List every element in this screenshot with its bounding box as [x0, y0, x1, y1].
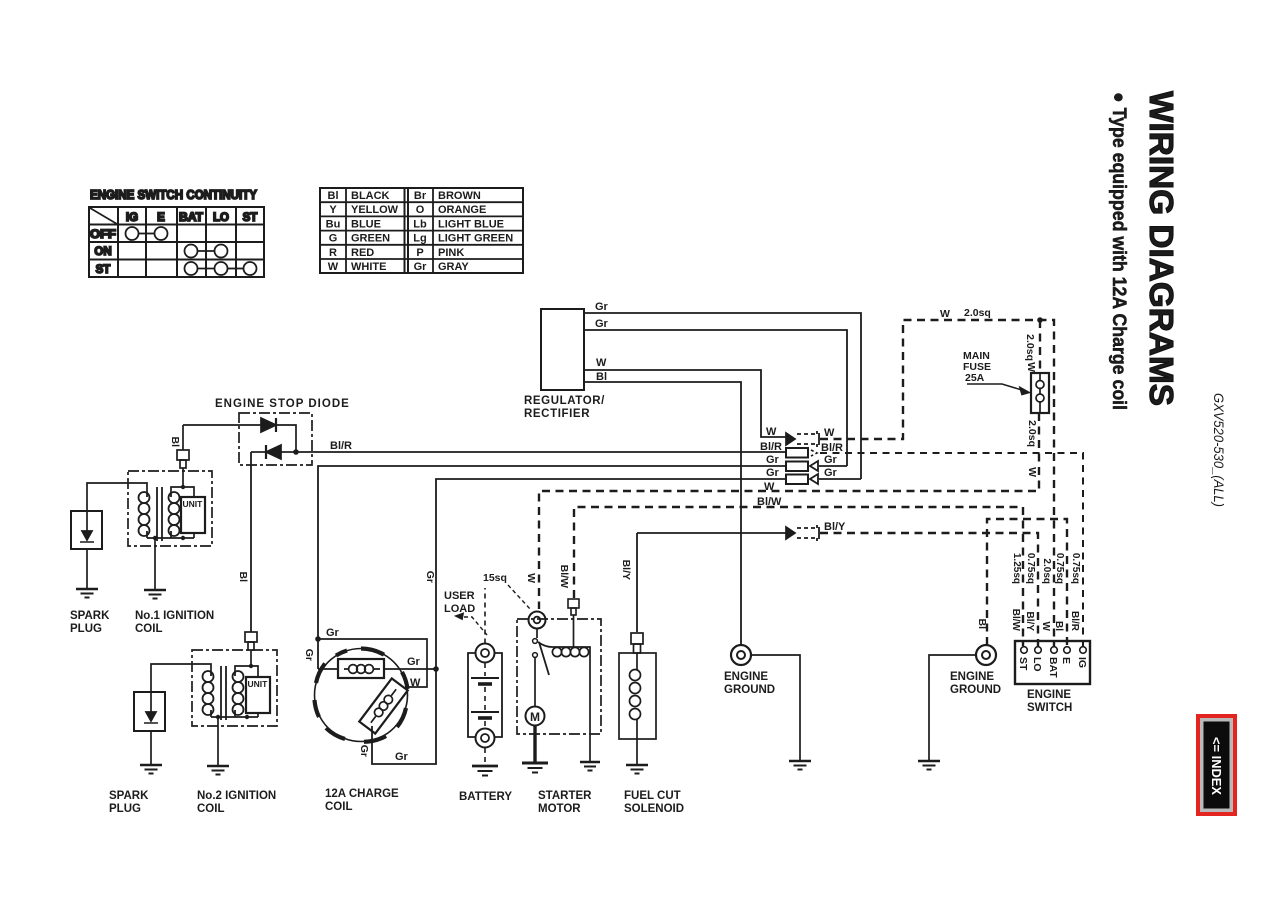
- svg-text:GRAY: GRAY: [438, 261, 469, 273]
- svg-text:R: R: [329, 247, 337, 259]
- svg-text:Bl/R: Bl/R: [760, 441, 782, 453]
- svg-text:Gr: Gr: [303, 649, 315, 661]
- battery: [459, 588, 512, 803]
- svg-text:LO: LO: [213, 212, 229, 224]
- svg-text:Bl/W: Bl/W: [1010, 609, 1021, 632]
- svg-text:Bl: Bl: [237, 572, 249, 583]
- svg-text:W: W: [596, 357, 607, 369]
- engine switch wire gauge labels (rotated): [1011, 553, 1081, 584]
- svg-text:Bl: Bl: [596, 371, 607, 383]
- svg-text:W: W: [410, 677, 421, 689]
- svg-text:Gr: Gr: [595, 318, 609, 330]
- INDEX button: [1196, 714, 1237, 816]
- svg-text:0.75sq: 0.75sq: [1025, 553, 1036, 584]
- ground below No.2 coil: [207, 766, 229, 775]
- svg-text:Bl: Bl: [169, 437, 181, 448]
- svg-text:UNIT: UNIT: [248, 679, 269, 689]
- connector bullet Bl/W at starter: [568, 599, 579, 647]
- svg-text:PINK: PINK: [438, 247, 464, 259]
- wire Bl/W dashed starter to engine switch ST: [574, 507, 1023, 646]
- svg-text:Bl/Y: Bl/Y: [620, 560, 632, 580]
- svg-text:Y: Y: [329, 204, 337, 216]
- svg-text:Gr: Gr: [595, 301, 609, 313]
- svg-text:2.0sq: 2.0sq: [964, 307, 991, 319]
- connector W (triangle + dashed shell): [786, 431, 819, 447]
- svg-text:ST: ST: [1017, 657, 1029, 671]
- svg-text:UNIT: UNIT: [183, 499, 204, 509]
- svg-text:LO: LO: [1031, 657, 1043, 672]
- No.1 ignition coil: [87, 471, 214, 635]
- svg-text:GROUND: GROUND: [724, 684, 775, 696]
- svg-text:Gr: Gr: [424, 571, 436, 583]
- svg-text:W: W: [1040, 622, 1051, 632]
- svg-text:Gr: Gr: [824, 454, 838, 466]
- svg-text:E: E: [1060, 657, 1072, 664]
- svg-text:E: E: [157, 212, 165, 224]
- wire W dashed: connector to top run, to engine switch BAT: [820, 320, 1054, 646]
- ground symbol engine ground 1: [789, 761, 811, 770]
- svg-text:ENGINE: ENGINE: [1027, 689, 1071, 701]
- ground below spark plug No.2: [140, 765, 162, 774]
- svg-text:P: P: [416, 247, 423, 259]
- engine switch continuity table: [89, 188, 264, 277]
- svg-text:W: W: [525, 573, 537, 583]
- No.2 ignition coil: [151, 650, 277, 815]
- svg-text:BROWN: BROWN: [438, 190, 481, 202]
- svg-text:Bl/R: Bl/R: [330, 440, 352, 452]
- engine switch: [1015, 641, 1090, 714]
- svg-text:REGULATOR/: REGULATOR/: [524, 395, 605, 407]
- wire Bl regulator down to engine ground: [584, 382, 741, 645]
- svg-text:No.1 IGNITION: No.1 IGNITION: [135, 610, 214, 622]
- svg-text:0.75sq: 0.75sq: [1054, 553, 1065, 584]
- svg-text:ENGINE SWITCH CONTINUITY: ENGINE SWITCH CONTINUITY: [90, 188, 258, 202]
- svg-text:Gr: Gr: [766, 467, 780, 479]
- svg-text:M: M: [530, 710, 540, 724]
- wire Bl/R to connector: [296, 451, 786, 453]
- svg-text:BLUE: BLUE: [351, 219, 381, 231]
- engine stop diode box: [215, 398, 350, 465]
- page title WIRING DIAGRAMS (rotated): [1143, 91, 1180, 406]
- svg-text:W: W: [940, 308, 950, 320]
- wire W dashed fuse tap down: [1039, 320, 1041, 372]
- svg-text:WIRING DIAGRAMS: WIRING DIAGRAMS: [1143, 91, 1180, 406]
- wire Bl/Y solid fuel cut to connector: [637, 532, 786, 534]
- diode D2 bottom: [251, 445, 296, 459]
- svg-text:ORANGE: ORANGE: [438, 204, 486, 216]
- svg-text:Lb: Lb: [413, 219, 427, 231]
- svg-text:W: W: [1026, 467, 1038, 477]
- svg-text:Bl/Y: Bl/Y: [1024, 612, 1035, 632]
- svg-text:Bl/W: Bl/W: [558, 565, 570, 588]
- svg-text:Bl/Y: Bl/Y: [824, 521, 846, 533]
- svg-text:BAT: BAT: [179, 212, 203, 224]
- wire color code table: [320, 188, 523, 273]
- svg-text:IG: IG: [126, 212, 138, 224]
- svg-text:Lg: Lg: [413, 233, 426, 245]
- regulator/rectifier box: [524, 309, 605, 420]
- svg-text:ON: ON: [94, 246, 111, 258]
- svg-text:COIL: COIL: [135, 623, 162, 635]
- wire W dashed fuse bottom to starter motor: [539, 413, 1039, 609]
- label 15sq with leader: [483, 572, 531, 610]
- svg-text:O: O: [416, 204, 425, 216]
- svg-text:Gr: Gr: [407, 656, 421, 668]
- svg-text:25A: 25A: [965, 372, 985, 384]
- engine ground 2: [929, 645, 1001, 760]
- svg-text:No.2 IGNITION: No.2 IGNITION: [197, 790, 276, 802]
- svg-text:Gr: Gr: [824, 467, 838, 479]
- wire Bl/Y down to fuel cut solenoid: [636, 533, 638, 632]
- ground below spark plug No.1: [76, 589, 98, 598]
- diode D1 top: [183, 418, 296, 450]
- svg-text:BATTERY: BATTERY: [459, 791, 512, 803]
- svg-text:LOAD: LOAD: [444, 603, 475, 615]
- svg-text:ENGINE: ENGINE: [724, 671, 768, 683]
- svg-text:RECTIFIER: RECTIFIER: [524, 408, 590, 420]
- svg-text:SOLENOID: SOLENOID: [624, 803, 684, 815]
- spark plug No.2: [109, 692, 165, 815]
- wire Gr row1 right segment: [819, 465, 847, 467]
- wire Bl dashed engine switch E to engine ground: [987, 519, 1067, 646]
- svg-text:W: W: [1025, 362, 1037, 372]
- ground below starter solenoid: [580, 762, 600, 771]
- wire Gr row2 right segment: [819, 478, 861, 480]
- label 2.0sq W (rotated, fuse bottom): [1026, 420, 1038, 477]
- svg-text:LIGHT BLUE: LIGHT BLUE: [438, 219, 504, 231]
- svg-text:SWITCH: SWITCH: [1027, 702, 1072, 714]
- engine switch wire color labels (rotated): [1010, 609, 1080, 632]
- svg-text:LIGHT GREEN: LIGHT GREEN: [438, 233, 513, 245]
- wire Gr row2 connector to charge coil right: [372, 479, 786, 764]
- svg-text:2.0sq: 2.0sq: [1024, 334, 1036, 361]
- node W top at fuse tap: [1037, 317, 1043, 323]
- ground below No.1 coil: [144, 590, 166, 599]
- starter motor: [517, 612, 601, 816]
- svg-text:Gr: Gr: [395, 751, 409, 763]
- svg-text:SPARK: SPARK: [70, 610, 110, 622]
- svg-text:W: W: [766, 426, 777, 438]
- svg-text:W: W: [824, 427, 835, 439]
- svg-text:Bl/R: Bl/R: [1069, 611, 1080, 632]
- svg-text:2.0sq: 2.0sq: [1041, 558, 1052, 584]
- svg-text:● Type equipped with 12A Charg: ● Type equipped with 12A Charge coil: [1108, 92, 1129, 410]
- svg-text:GXV520-530_(ALL): GXV520-530_(ALL): [1211, 393, 1226, 507]
- svg-text:SPARK: SPARK: [109, 790, 149, 802]
- wire Bl/R dashed connector to engine switch IG: [820, 453, 1083, 646]
- svg-text:IG: IG: [1076, 657, 1088, 668]
- wire Gr regulator top to right vertical: [584, 313, 861, 479]
- connector Bl/R (receptacle + dashed pin): [786, 448, 817, 458]
- wire Bl stop diode down to No.2 coil: [250, 452, 252, 632]
- svg-text:Gr: Gr: [358, 745, 370, 757]
- svg-text:PLUG: PLUG: [109, 803, 141, 815]
- ground below starter motor (thick): [522, 763, 548, 773]
- labels at connectors right side: [821, 427, 846, 533]
- svg-text:Bl: Bl: [328, 190, 339, 202]
- spark plug No.1: [70, 511, 110, 635]
- svg-text:Gr: Gr: [414, 261, 428, 273]
- connector Gr row1 (receptacle + pin): [786, 461, 818, 471]
- subtitle bullet line (rotated): [1108, 92, 1129, 410]
- svg-text:RED: RED: [351, 247, 374, 259]
- ground below battery: [472, 766, 498, 776]
- svg-text:FUEL CUT: FUEL CUT: [624, 790, 681, 802]
- label W 2.0sq top: [940, 307, 991, 320]
- fuel cut solenoid: [619, 633, 684, 815]
- svg-text:0.75sq: 0.75sq: [1070, 553, 1081, 584]
- svg-text:WHITE: WHITE: [351, 261, 386, 273]
- svg-text:Br: Br: [414, 190, 427, 202]
- svg-text:<= INDEX: <= INDEX: [1209, 737, 1224, 795]
- wire W regulator to connector: [584, 370, 786, 437]
- ground below fuel cut solenoid: [626, 765, 648, 774]
- svg-text:1.25sq: 1.25sq: [1011, 553, 1022, 584]
- svg-text:ST: ST: [243, 212, 258, 224]
- labels at connectors left side: [757, 426, 782, 508]
- svg-text:YELLOW: YELLOW: [351, 204, 399, 216]
- node junction Bl/R: [293, 449, 299, 455]
- connector Gr row2 (receptacle + pin): [786, 474, 818, 484]
- svg-text:Bu: Bu: [326, 219, 341, 231]
- label 2.0sq W (rotated, fuse top): [1024, 334, 1037, 372]
- svg-text:COIL: COIL: [325, 801, 352, 813]
- wire Bl/Y dashed connector to engine switch LO: [820, 533, 1038, 646]
- ground symbol engine ground 2: [918, 761, 940, 770]
- main fuse 25A: [963, 350, 1049, 413]
- connector Bl/Y (triangle + dashed shell): [786, 525, 819, 541]
- svg-text:GREEN: GREEN: [351, 233, 390, 245]
- connector bullet above No.1 coil: [177, 450, 189, 487]
- svg-text:ENGINE: ENGINE: [950, 671, 994, 683]
- 12A charge coil: [303, 571, 439, 813]
- connector bullet above No.2 coil: [245, 632, 257, 666]
- svg-text:Gr: Gr: [766, 454, 780, 466]
- wire Gr regulator 2nd to right vertical: [584, 330, 847, 466]
- engine ground 1: [724, 645, 800, 760]
- svg-text:Bl: Bl: [976, 619, 988, 630]
- svg-text:Gr: Gr: [326, 627, 340, 639]
- svg-text:OFF: OFF: [90, 229, 116, 241]
- wire Gr row1 connector to charge coil left: [318, 466, 786, 669]
- svg-text:MOTOR: MOTOR: [538, 803, 581, 815]
- svg-text:Bl: Bl: [1053, 621, 1064, 631]
- svg-text:USER: USER: [444, 590, 475, 602]
- svg-text:STARTER: STARTER: [538, 790, 592, 802]
- svg-text:GROUND: GROUND: [950, 684, 1001, 696]
- svg-text:12A CHARGE: 12A CHARGE: [325, 788, 399, 800]
- svg-text:ENGINE STOP DIODE: ENGINE STOP DIODE: [215, 398, 350, 410]
- svg-text:G: G: [329, 233, 338, 245]
- model code GXV520-530_(ALL) (rotated): [1211, 393, 1226, 507]
- svg-text:BAT: BAT: [1047, 657, 1059, 678]
- svg-text:PLUG: PLUG: [70, 623, 102, 635]
- svg-text:W: W: [328, 261, 339, 273]
- svg-text:BLACK: BLACK: [351, 190, 390, 202]
- user load label and arrow: [444, 590, 487, 635]
- svg-text:15sq: 15sq: [483, 572, 507, 584]
- svg-text:2.0sq: 2.0sq: [1026, 420, 1038, 447]
- svg-text:COIL: COIL: [197, 803, 224, 815]
- svg-text:ST: ST: [96, 264, 111, 276]
